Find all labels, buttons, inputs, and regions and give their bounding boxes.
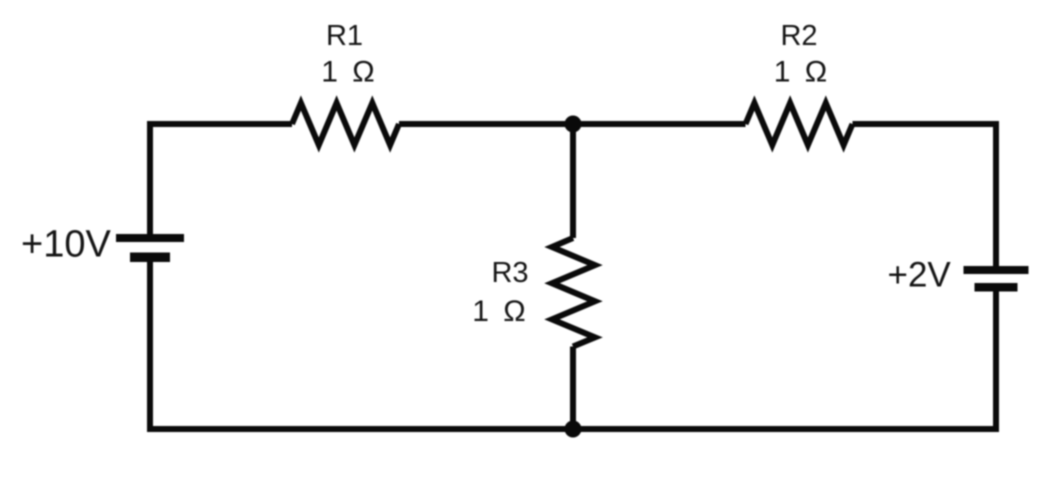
wire: left vertical upper segment bbox=[147, 121, 153, 234]
wire: top-middle horizontal segment bbox=[399, 121, 746, 127]
battery V2 positive plate (long bar) bbox=[964, 266, 1029, 274]
svg-text:R1: R1 bbox=[326, 20, 363, 52]
battery V1 positive plate (long bar) bbox=[116, 234, 184, 242]
wire: right vertical upper segment bbox=[993, 121, 999, 266]
svg-text:R3: R3 bbox=[491, 257, 528, 289]
svg-text:+2V: +2V bbox=[888, 256, 952, 295]
battery V2 negative plate (short bar) bbox=[975, 283, 1018, 292]
resistor R1 bbox=[292, 103, 399, 145]
node B: bottom junction dot bbox=[565, 421, 582, 438]
svg-text:+10V: +10V bbox=[21, 224, 111, 266]
wire: bottom horizontal segment bbox=[147, 426, 999, 432]
resistor R3 bbox=[552, 238, 595, 347]
wire: middle vertical lower segment bbox=[570, 347, 576, 430]
wire: top-left horizontal segment bbox=[150, 121, 292, 127]
resistor R2 bbox=[746, 103, 853, 145]
wire: right vertical lower segment bbox=[993, 291, 999, 429]
wire: left vertical lower segment bbox=[147, 262, 153, 432]
node A: top junction dot bbox=[565, 116, 582, 133]
svg-text:1 Ω: 1 Ω bbox=[774, 56, 830, 89]
svg-text:1 Ω: 1 Ω bbox=[321, 56, 377, 89]
svg-text:R2: R2 bbox=[780, 20, 817, 52]
wire: middle vertical upper segment bbox=[570, 124, 576, 238]
battery V1 negative plate (short bar) bbox=[130, 253, 170, 263]
wire: top-right horizontal segment bbox=[853, 121, 997, 127]
svg-text:1 Ω: 1 Ω bbox=[472, 295, 528, 328]
